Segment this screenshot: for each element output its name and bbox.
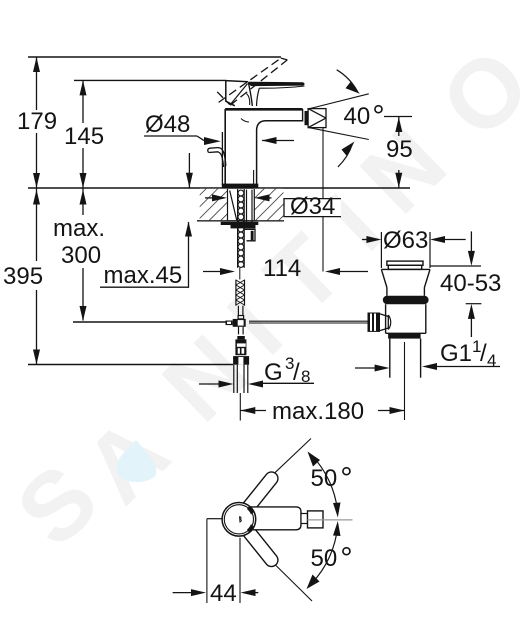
braided hose — [236, 280, 245, 306]
40 deg arcs with arrows — [337, 70, 358, 92]
tailpipe — [389, 339, 391, 378]
body top thick — [225, 108, 302, 111]
dim 95 — [398, 117, 400, 188]
svg-text:44: 44 — [210, 580, 237, 607]
center mark — [240, 517, 242, 523]
395 bottom ref line — [28, 364, 233, 366]
spray angle lines — [308, 94, 369, 140]
svg-text:114: 114 — [263, 255, 301, 282]
T joint block — [233, 319, 246, 327]
dim 145 line — [82, 80, 84, 188]
svg-text:/: / — [480, 340, 487, 367]
svg-text:395: 395 — [3, 263, 43, 290]
svg-text:max.: max. — [53, 215, 105, 242]
deck bottom line — [197, 220, 284, 222]
dashed raised handle — [217, 58, 287, 105]
svg-text:145: 145 — [64, 123, 104, 150]
valve centerline — [404, 342, 406, 420]
decorative curve where spout meets body — [241, 119, 249, 123]
svg-text:50°: 50° — [311, 541, 353, 576]
G1 1/4 arrows — [428, 366, 500, 368]
bottom step dark band — [388, 334, 421, 339]
valve body — [386, 304, 426, 333]
Ø63 ext lines — [380, 232, 382, 268]
svg-text:O: O — [420, 28, 525, 159]
aerator projection line — [322, 128, 324, 199]
Ø34 white box — [284, 199, 341, 217]
gap hairline at 114 line — [239, 268, 241, 280]
pull rod line top view — [207, 518, 222, 520]
svg-text:300: 300 — [61, 242, 101, 269]
svg-text:max.45: max.45 — [104, 262, 183, 289]
svg-text:Ø34: Ø34 — [290, 193, 335, 220]
supply fitting collar — [237, 336, 245, 339]
handle base — [226, 81, 253, 106]
max45 leader down arrow above deck — [188, 153, 190, 188]
handle joint wedge lower — [247, 524, 255, 533]
O-ring — [383, 296, 429, 304]
inner wall near base right — [253, 170, 255, 184]
upper 50 arc — [312, 455, 338, 513]
aerator box with cross — [308, 109, 326, 128]
valve plug cap — [387, 261, 423, 269]
neck — [301, 514, 308, 524]
arrows left dims — [33, 57, 87, 365]
hose to T joint — [238, 306, 244, 319]
spout right edge / aerator joint — [302, 109, 304, 122]
spout bottom edge + inner corner — [257, 121, 303, 185]
deck top line — [28, 187, 410, 189]
threaded shank chain (deck to break) — [238, 189, 245, 268]
left socket — [226, 321, 233, 326]
base plate — [222, 184, 258, 189]
upper handle top view — [238, 469, 281, 518]
G3/8 tails — [234, 365, 248, 393]
svg-text:/: / — [293, 359, 300, 386]
svg-text:50°: 50° — [311, 461, 353, 496]
svg-text:40-53: 40-53 — [440, 270, 501, 297]
dim 40-53 — [430, 265, 481, 267]
spout inner arrow — [262, 140, 294, 142]
svg-text:G1: G1 — [440, 340, 472, 367]
blade underside line — [259, 86, 304, 88]
dim max300 line — [82, 188, 84, 321]
svg-text:G: G — [264, 359, 283, 386]
lower 50 arc — [312, 526, 338, 584]
deck hatching right of hole — [254, 189, 283, 220]
spout axis centerline gray — [308, 519, 353, 521]
supply fitting body — [235, 339, 246, 355]
svg-text:Ø63: Ø63 — [383, 227, 428, 254]
right rod (double line) to valve — [249, 320, 368, 322]
washer below deck — [221, 222, 259, 225]
upper ray — [243, 439, 311, 504]
G3/8 arrows — [199, 383, 219, 385]
body outline — [222, 109, 302, 185]
cone to body — [380, 314, 388, 331]
lower handle top view — [238, 520, 281, 569]
max300 bottom ref line — [73, 321, 227, 323]
hole edge verticals — [228, 189, 255, 227]
tip block — [308, 511, 324, 528]
mounting nut — [231, 225, 256, 228]
Ø34 arrows at hole — [205, 197, 213, 199]
spout bar top view — [247, 507, 301, 530]
svg-text:40°: 40° — [344, 99, 385, 134]
leader 40deg to 95 — [384, 116, 412, 118]
ref line 145 level — [74, 79, 226, 81]
pop-up rod coupler right of shank — [245, 229, 256, 241]
svg-text:179: 179 — [17, 108, 57, 135]
below T: tube — [239, 327, 244, 335]
bottom nut — [233, 356, 249, 365]
svg-text:max.180: max.180 — [272, 398, 364, 425]
aerator dark bar — [305, 111, 309, 125]
handle lever blade (filled) — [248, 82, 305, 86]
Ø63 arrows — [362, 239, 368, 241]
watermark blue drop — [116, 440, 156, 482]
lower ray — [245, 535, 312, 601]
deck hatching left of hole — [200, 189, 227, 220]
ref line top (179 level) — [28, 56, 281, 58]
body circle — [222, 503, 256, 537]
pull rod vertical — [221, 132, 223, 185]
dim 179 line — [36, 57, 38, 188]
svg-text:95: 95 — [386, 136, 413, 163]
dim 44 — [206, 519, 208, 603]
pull rod knob hook — [208, 148, 226, 167]
dim 395 line — [36, 188, 38, 365]
handle joint wedge upper — [247, 505, 255, 514]
centerline below tails — [239, 393, 241, 421]
body left edge — [224, 109, 226, 185]
svg-text:Ø48: Ø48 — [145, 111, 190, 138]
valve flange — [381, 269, 430, 295]
knurled knob — [368, 313, 381, 332]
